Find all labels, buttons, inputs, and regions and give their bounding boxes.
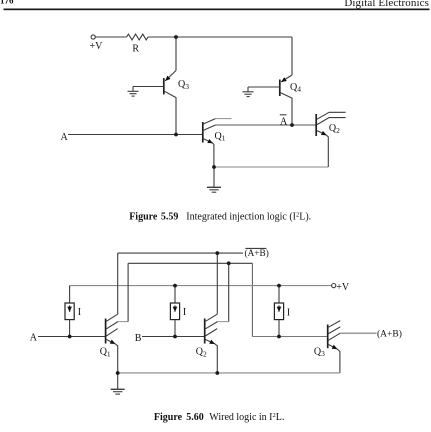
svg-text:(A+B): (A+B) xyxy=(245,248,269,259)
svg-text:Q2: Q2 xyxy=(196,347,207,359)
svg-text:Integrated injection logic (I2: Integrated injection logic (I2L). xyxy=(186,212,311,223)
svg-text:R: R xyxy=(132,44,139,55)
svg-text:I: I xyxy=(183,307,186,318)
svg-text:Q4: Q4 xyxy=(290,82,301,94)
svg-text:(A+B): (A+B) xyxy=(377,329,402,340)
svg-text:B: B xyxy=(135,333,142,344)
svg-text:A: A xyxy=(30,333,38,344)
svg-text:Q2: Q2 xyxy=(329,123,340,135)
svg-text:A: A xyxy=(280,117,288,128)
svg-text:176: 176 xyxy=(0,0,14,6)
svg-text:+V: +V xyxy=(90,41,104,52)
svg-text:5.59: 5.59 xyxy=(161,212,179,223)
svg-text:Q3: Q3 xyxy=(314,346,325,358)
svg-text:I: I xyxy=(78,307,81,318)
svg-text:5.60: 5.60 xyxy=(186,412,204,423)
svg-text:Wired logic in I2L.: Wired logic in I2L. xyxy=(209,412,284,423)
svg-text:Q3: Q3 xyxy=(178,79,189,91)
svg-text:Q1: Q1 xyxy=(215,131,226,143)
svg-text:Figure: Figure xyxy=(129,212,158,223)
svg-text:A: A xyxy=(61,132,69,143)
svg-text:Figure: Figure xyxy=(154,412,183,423)
svg-text:+V: +V xyxy=(336,282,350,293)
svg-text:Q1: Q1 xyxy=(100,347,111,359)
svg-text:I: I xyxy=(287,307,290,318)
svg-text:Digital Electronics: Digital Electronics xyxy=(344,0,429,9)
